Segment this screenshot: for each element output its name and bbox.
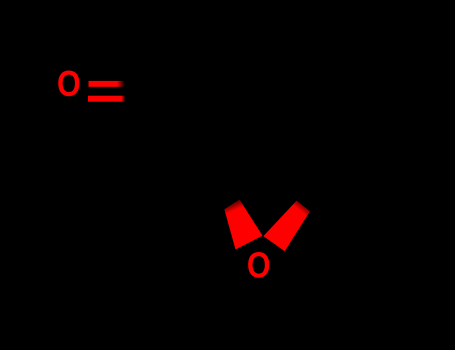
svg-text:O: O (247, 246, 271, 286)
wedge bond C2-O2 (left wedge of epoxide) (224, 200, 262, 250)
wedge bond C3-O2 (right wedge of epoxide) (263, 201, 310, 252)
double bond C1=O1 upper line (89, 81, 125, 87)
double bond C1=O1 lower line (88, 96, 125, 102)
svg-text:O: O (57, 64, 81, 104)
